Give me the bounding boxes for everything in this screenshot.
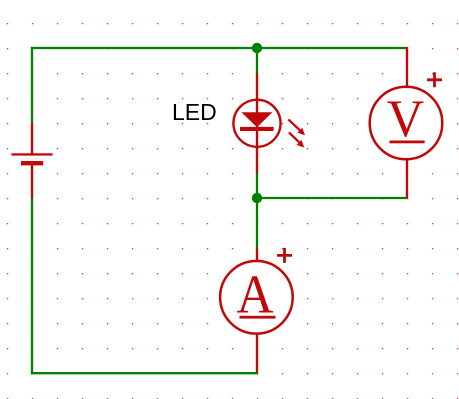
wire: node N2 to voltmeter - pin [257,197,408,199]
battery - plate (short thick) [21,161,43,165]
LED body circle [233,100,280,147]
wire: LED cathode pin down to node N2 [256,173,258,199]
battery bottom lead [31,164,33,199]
voltmeter + polarity mark [427,72,442,87]
LED cathode bar [240,127,274,131]
LED emission arrow 1 [288,119,305,135]
wire: battery + terminal up to top-left corner [31,47,33,124]
voltmeter letter underline [390,141,425,144]
voltmeter + pin (top) [406,47,408,88]
ammeter letter underline [240,316,276,319]
LED (light emitting diode) [233,73,305,173]
junction: node N1 (top rail / LED anode tap) [252,43,262,53]
wire: bottom rail from corner to ammeter - pin [31,372,258,374]
ammeter body circle [220,261,293,334]
voltmeter body circle [370,87,443,160]
voltmeter - pin (bottom) [406,159,408,199]
wire: node N1 down to LED anode pin [256,48,258,74]
junction: node N2 (LED cathode / voltmeter - / ammeter +) [252,193,262,203]
svg-text:LED: LED [172,99,217,125]
battery + plate (long thin) [12,153,53,155]
ammeter + polarity mark [277,248,292,263]
svg-text:A: A [236,264,274,325]
svg-text:V: V [387,89,424,148]
wire: node N2 down to ammeter + pin [256,198,258,249]
voltmeter [370,47,443,198]
battery (voltage source) [12,123,53,199]
LED emission arrow 2 [289,132,304,147]
ammeter [220,248,293,374]
LED anode triangle [241,112,272,127]
LED lead (anode to cathode through body) [256,73,258,173]
ammeter - pin (bottom) [256,333,258,374]
battery top lead [31,123,33,155]
wire: top rail from battery corner to voltmeter + pin [31,47,408,49]
ammeter + pin (top) [256,248,258,262]
wire: battery - terminal down to bottom-left corner [31,198,33,375]
